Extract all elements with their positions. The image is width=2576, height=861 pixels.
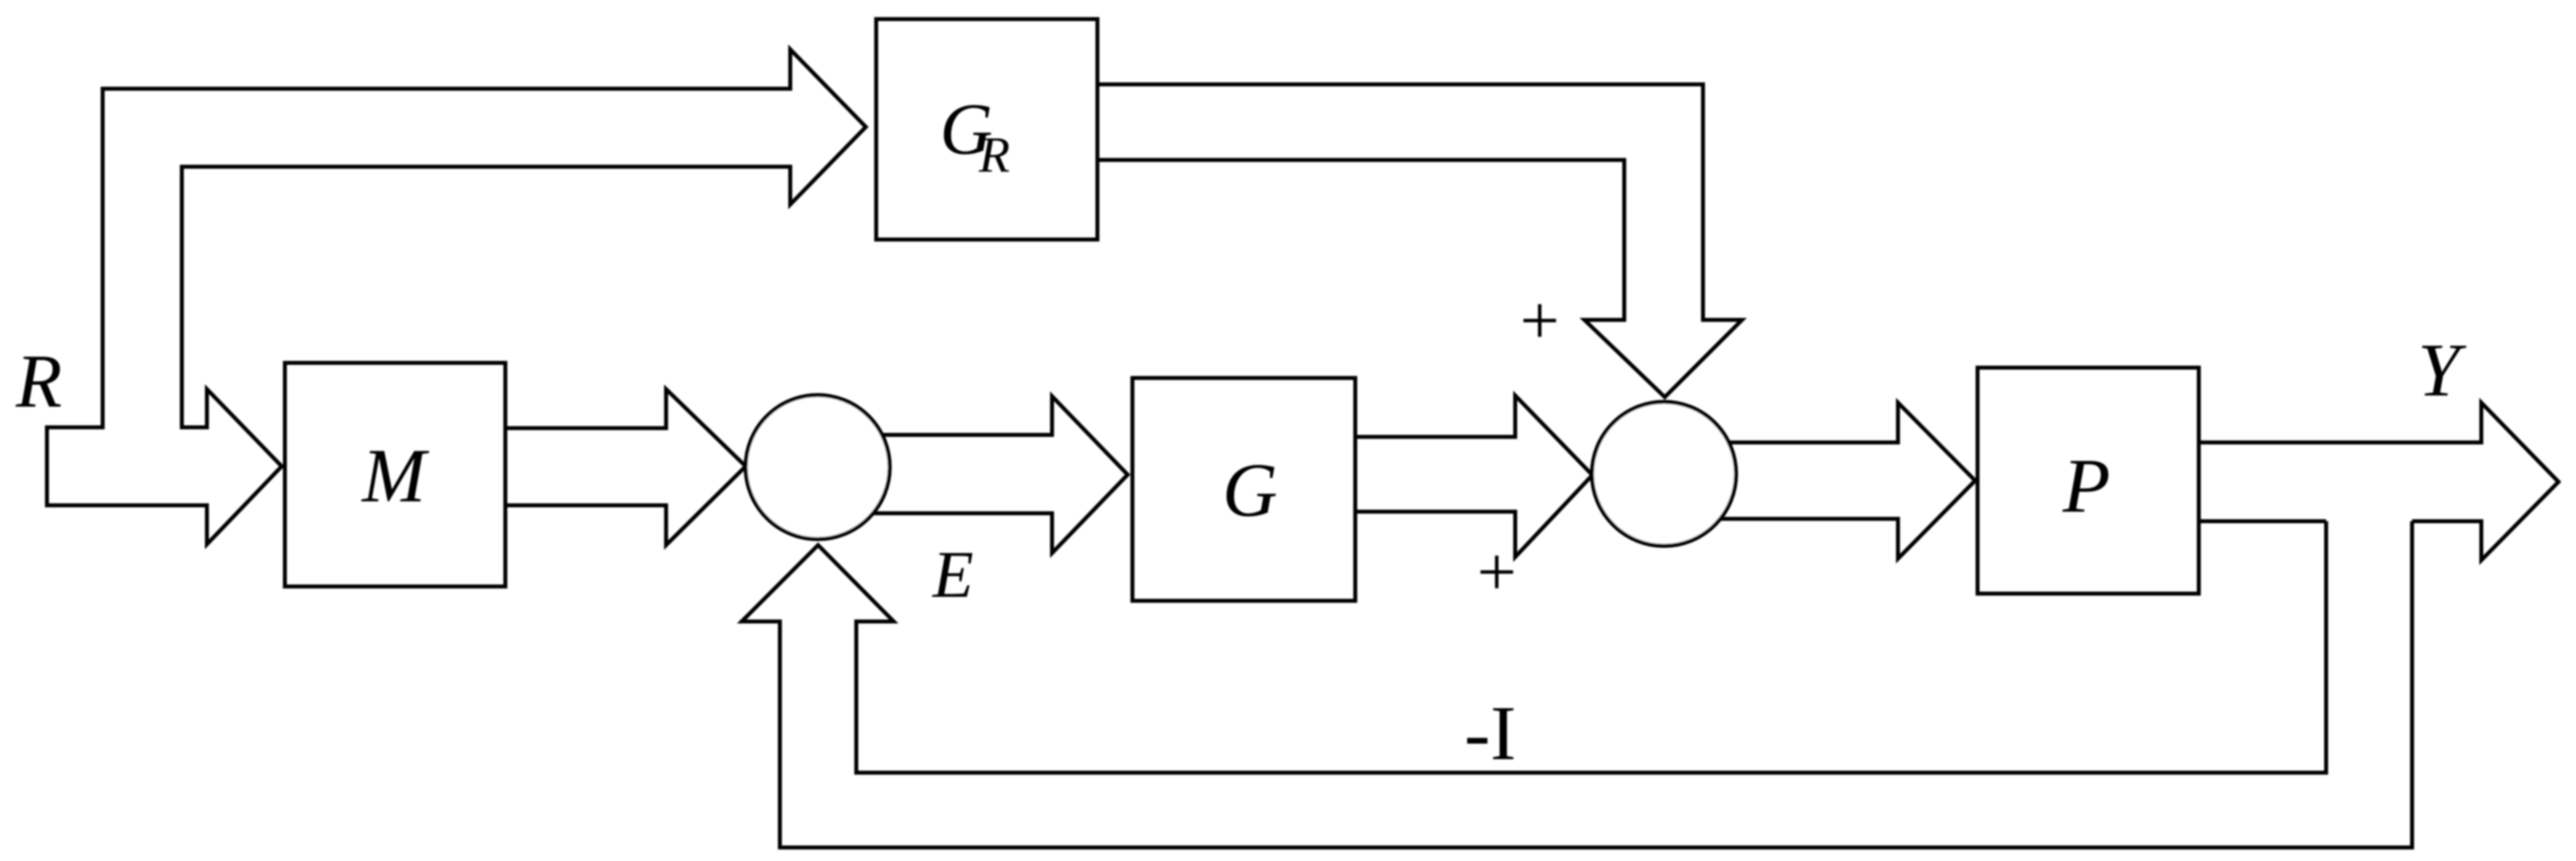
svg-text:-I: -I xyxy=(1464,691,1516,777)
summing node S1 xyxy=(746,395,890,540)
svg-text:R: R xyxy=(15,339,62,423)
wire M output arrow into summing node S1 xyxy=(505,389,746,545)
wire G output arrow into summing node S2 xyxy=(1355,395,1592,557)
svg-text:M: M xyxy=(360,433,430,518)
summing node S2 xyxy=(1592,402,1736,546)
wire GR output down into summing node S2 xyxy=(1097,84,1742,397)
block P xyxy=(1978,368,2199,594)
wire P output bottom segment to feedback tap xyxy=(2199,520,2326,524)
block GR xyxy=(876,19,1097,240)
svg-text:G: G xyxy=(1222,447,1277,532)
wire R input block arrow into M with branch up to GR xyxy=(47,49,866,544)
wire P output arrow to Y xyxy=(2199,403,2558,560)
block G xyxy=(1132,378,1355,601)
svg-text:E: E xyxy=(932,538,973,612)
wire feedback loop -I from Y line up into summing node S1 xyxy=(742,521,2412,847)
block M xyxy=(285,363,505,586)
svg-text:Y: Y xyxy=(2418,328,2467,412)
svg-text:+: + xyxy=(1477,534,1517,611)
wire S2 output arrow into P xyxy=(1670,403,1975,559)
svg-text:+: + xyxy=(1520,282,1560,360)
svg-text:R: R xyxy=(978,127,1010,183)
svg-text:P: P xyxy=(2062,443,2110,529)
wire S1 output arrow E into G xyxy=(824,396,1128,553)
